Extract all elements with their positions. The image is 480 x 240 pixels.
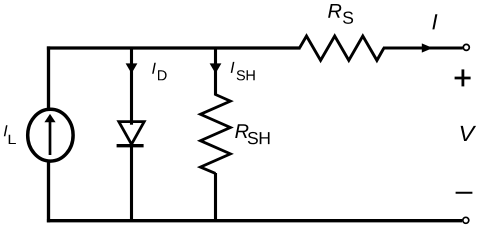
label I (output current) xyxy=(432,14,437,29)
wire: diode branch upper xyxy=(130,48,133,119)
label IL xyxy=(4,125,16,144)
wire: shunt branch lower xyxy=(214,173,217,221)
diode D1 triangle xyxy=(119,122,144,145)
label V xyxy=(461,126,477,141)
plus sign xyxy=(455,69,471,86)
wire: diode branch lower xyxy=(130,146,133,221)
wire: left branch vertical xyxy=(47,46,50,222)
negative terminal xyxy=(463,217,469,223)
positive terminal xyxy=(463,44,469,50)
current source arrow xyxy=(44,114,55,155)
resistor RS zigzag xyxy=(300,36,384,60)
resistor RSH zigzag xyxy=(200,95,230,174)
current source IL ellipse xyxy=(28,109,73,161)
diode D1 cathode bar xyxy=(117,144,144,147)
label RS xyxy=(328,4,353,24)
wire: bottom bus xyxy=(47,219,462,222)
label ID xyxy=(152,63,167,81)
wire: shunt branch upper xyxy=(214,48,217,96)
current arrow ID on diode branch xyxy=(126,63,138,73)
wire: stub into diode triangle xyxy=(130,119,133,125)
wire: top-right from Rs to positive terminal xyxy=(383,47,463,50)
wire: top bus from left corner to Rs xyxy=(47,46,301,49)
output current arrow I xyxy=(422,43,433,52)
label ISH xyxy=(231,62,255,81)
label RSH xyxy=(235,124,269,144)
minus sign xyxy=(456,192,473,194)
current arrow ISH on shunt branch xyxy=(210,63,222,73)
